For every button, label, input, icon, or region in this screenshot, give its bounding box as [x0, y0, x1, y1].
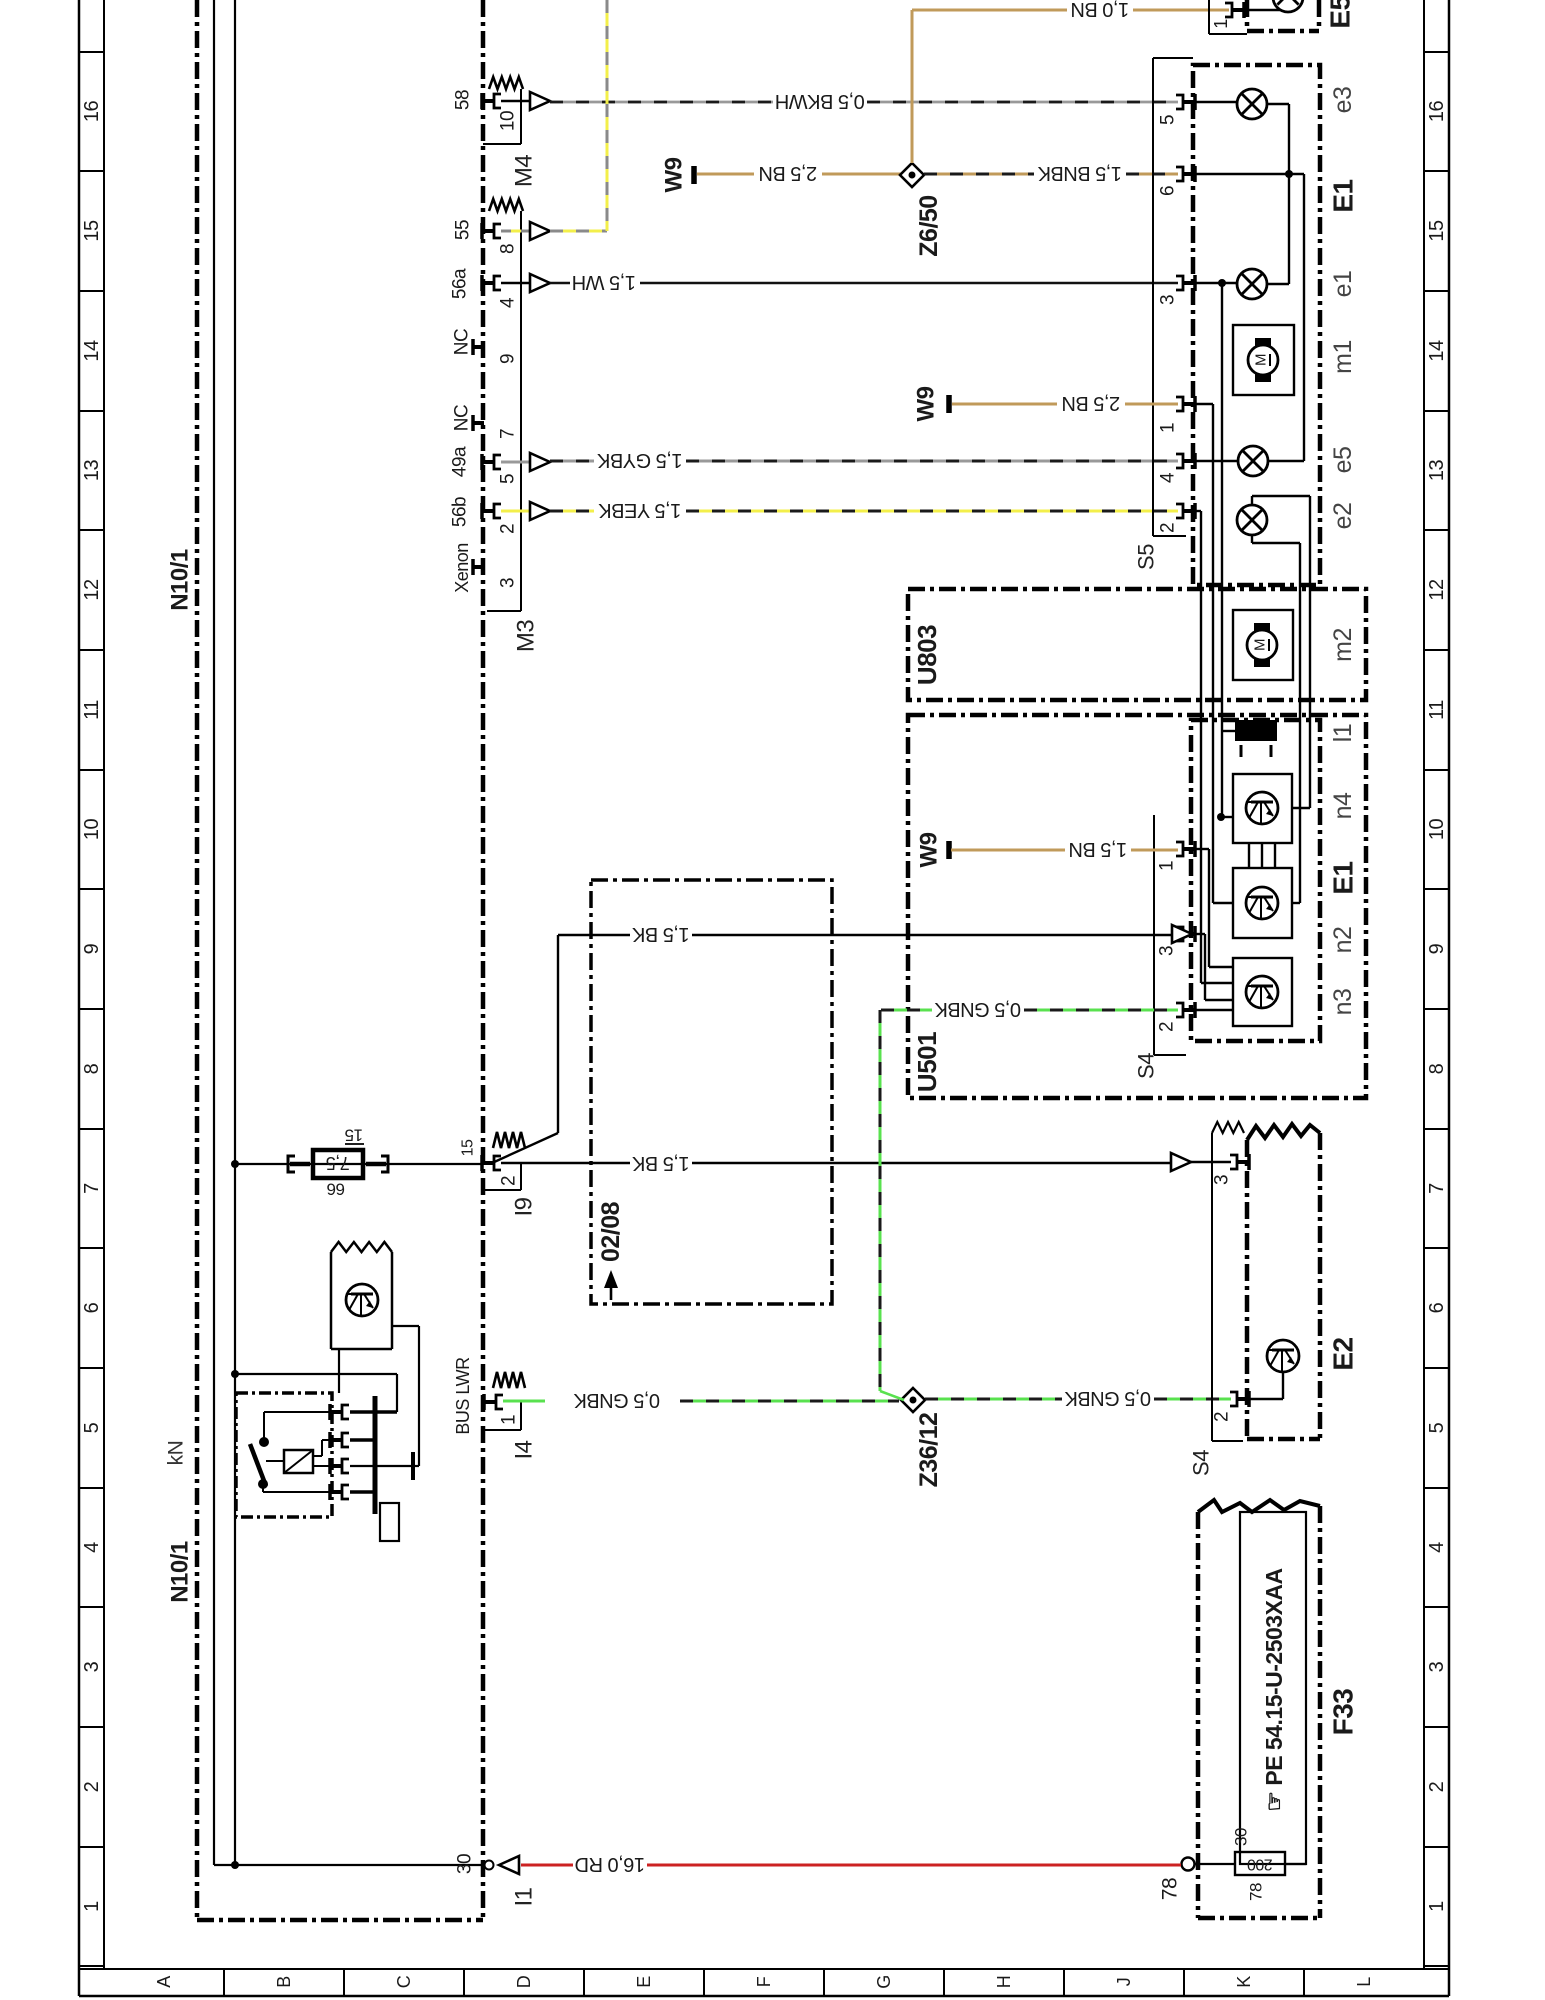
connector sleeve Z36/12	[901, 1388, 925, 1412]
svg-text:K: K	[1234, 1976, 1254, 1988]
svg-text:S5: S5	[1134, 544, 1159, 570]
fuse 7,5A	[313, 1150, 363, 1178]
relay bus bar	[373, 1396, 378, 1514]
svg-text:☞ PE 54.15-U-2503XAA: ☞ PE 54.15-U-2503XAA	[1261, 1568, 1287, 1811]
svg-text:1,5 GYBK: 1,5 GYBK	[596, 449, 682, 471]
svg-text:M: M	[1253, 354, 1270, 366]
svg-text:5: 5	[81, 1422, 103, 1433]
svg-text:W9: W9	[913, 386, 940, 421]
svg-text:15: 15	[1426, 220, 1448, 242]
motor m2	[1233, 610, 1293, 680]
igniter unit E1 lower box	[1191, 720, 1320, 1041]
pin 5	[1184, 100, 1195, 104]
svg-text:E1: E1	[1328, 179, 1359, 212]
arrow 02/08	[610, 1282, 613, 1300]
svg-text:16: 16	[1426, 101, 1448, 123]
wire pin1 down	[1194, 403, 1213, 405]
wire l1/n4 junction	[1217, 813, 1225, 821]
wire transistor to ground	[392, 1325, 419, 1327]
svg-text:1: 1	[1211, 19, 1231, 29]
svg-text:14: 14	[81, 340, 103, 362]
svg-text:F: F	[754, 1976, 774, 1987]
svg-text:78: 78	[1247, 1883, 1266, 1901]
wire 2,5 BN to Z6/50	[697, 173, 754, 176]
terminal NC pin 9	[473, 345, 484, 349]
pin 6	[1184, 172, 1195, 176]
svg-text:M4: M4	[511, 155, 538, 187]
svg-text:E2: E2	[1328, 1337, 1359, 1370]
pin 3 E2	[1238, 1160, 1249, 1164]
svg-text:C: C	[394, 1975, 414, 1988]
svg-text:n4: n4	[1329, 792, 1357, 819]
wires in E2	[1243, 1398, 1283, 1400]
svg-text:3: 3	[498, 578, 519, 588]
relay pin 3	[330, 1464, 341, 1468]
pin 1 E5	[1233, 8, 1244, 12]
wires S4 pins to igniter	[1194, 848, 1209, 850]
svg-text:S4: S4	[1134, 1053, 1159, 1079]
connector sleeve Z6/50	[900, 163, 924, 187]
fuse 200 box	[1235, 1852, 1285, 1875]
svg-text:2: 2	[1158, 523, 1179, 533]
terminal circle 30	[485, 1861, 494, 1870]
svg-text:N10/1: N10/1	[167, 549, 194, 611]
svg-text:16,0 RD: 16,0 RD	[575, 1853, 645, 1875]
relay kN box	[236, 1393, 332, 1517]
svg-text:2: 2	[81, 1781, 103, 1792]
svg-text:1,5 BNBK: 1,5 BNBK	[1037, 162, 1122, 184]
svg-text:78: 78	[1159, 1878, 1182, 1900]
svg-text:1,5 BN: 1,5 BN	[1069, 838, 1127, 860]
svg-text:3: 3	[1157, 946, 1178, 956]
svg-text:4: 4	[498, 297, 519, 308]
connector M3 bracket	[520, 211, 522, 611]
wire 1,5 BNBK to pin6	[924, 173, 1034, 176]
torn edge E2	[1247, 1124, 1320, 1140]
terminal 56a pin	[482, 281, 493, 285]
connector bracket S4 E2	[1212, 1122, 1244, 1133]
wire in E5	[1241, 9, 1288, 11]
svg-text:9: 9	[81, 943, 103, 954]
pin 15 I9	[482, 1161, 493, 1165]
prefuse F33 box	[1196, 1512, 1201, 1918]
svg-text:N10/1: N10/1	[167, 1541, 194, 1603]
svg-text:11: 11	[81, 700, 103, 720]
level sensor E2 box	[1245, 1140, 1250, 1439]
connector bracket S5	[1153, 57, 1193, 59]
svg-text:F33: F33	[1328, 1689, 1359, 1736]
svg-text:kN: kN	[165, 1441, 188, 1466]
svg-text:02/08: 02/08	[597, 1201, 625, 1262]
wire to fuse	[235, 1163, 482, 1165]
relay contact	[259, 1437, 269, 1447]
svg-text:0,5 GNBK: 0,5 GNBK	[1064, 1387, 1151, 1409]
xenon unit U501 box	[908, 715, 1366, 1098]
transistor n3	[1233, 958, 1292, 1026]
wire GNBK up from Z36/12	[880, 1391, 904, 1400]
wires e2	[1251, 496, 1253, 505]
svg-text:l1: l1	[1329, 724, 1357, 742]
fuse strip box	[1240, 1512, 1306, 1864]
wire 1,0 BN up and right	[911, 10, 914, 163]
svg-text:E5: E5	[1325, 0, 1356, 29]
svg-text:e2: e2	[1329, 503, 1357, 530]
svg-text:1,5 BK: 1,5 BK	[631, 923, 689, 945]
heated window E5 box	[1245, 0, 1250, 31]
svg-text:9: 9	[498, 354, 519, 364]
svg-text:L: L	[1354, 1977, 1374, 1987]
svg-text:J: J	[1114, 1978, 1134, 1987]
wire branch from bus B	[231, 1370, 239, 1378]
wire 1,5 BK lower	[501, 1162, 630, 1164]
svg-text:3: 3	[81, 1661, 103, 1672]
lamp in E5 (cropped)	[1273, 0, 1303, 12]
svg-text:1: 1	[1157, 861, 1178, 871]
svg-text:U501: U501	[912, 1032, 942, 1092]
svg-text:2,5 BN: 2,5 BN	[1062, 392, 1120, 414]
svg-text:8: 8	[1426, 1063, 1448, 1074]
wire 49a GYBK	[501, 461, 530, 464]
connector I4 bracket	[520, 1402, 522, 1430]
svg-text:5: 5	[498, 474, 519, 484]
svg-text:Z36/12: Z36/12	[915, 1413, 943, 1488]
svg-text:1,5 WH: 1,5 WH	[572, 271, 636, 293]
svg-text:16: 16	[81, 101, 103, 123]
svg-text:8: 8	[81, 1063, 103, 1074]
transistor in N10/1	[346, 1284, 378, 1316]
wire to ground bar	[350, 1465, 410, 1467]
headlamp unit E1 box	[1193, 65, 1320, 585]
svg-text:B: B	[274, 1976, 294, 1988]
relay pin 2	[330, 1438, 341, 1442]
torn edge F33	[1198, 1500, 1320, 1512]
svg-text:3: 3	[1212, 1175, 1233, 1185]
wire bus B inside N10/1	[234, 0, 236, 1865]
connector M4 zigzag	[489, 77, 523, 89]
wire 55 yellow	[501, 230, 530, 233]
connector I4 zigzag	[493, 1372, 525, 1388]
lamp e2	[1237, 505, 1267, 535]
svg-text:1: 1	[1426, 1901, 1448, 1912]
svg-text:2,5 BN: 2,5 BN	[759, 162, 817, 184]
wire 16,0 RD	[521, 1864, 573, 1867]
terminal Xenon pin	[473, 565, 484, 569]
svg-text:0,5 GNBK: 0,5 GNBK	[573, 1389, 660, 1411]
svg-text:S4: S4	[1189, 1450, 1214, 1476]
wire 56b YEBK	[501, 510, 530, 513]
terminal 49a pin	[482, 460, 493, 464]
svg-text:BUS LWR: BUS LWR	[453, 1357, 473, 1435]
wire transistor down	[338, 1349, 340, 1393]
wire pin6 net	[1194, 173, 1304, 175]
svg-text:n2: n2	[1329, 927, 1357, 954]
wire e5 right	[1268, 460, 1304, 462]
svg-text:2: 2	[1212, 1412, 1233, 1422]
wire 0,5 GNBK to S4 pin2	[881, 1009, 932, 1012]
wire 56a WH	[501, 282, 530, 285]
grid row letters	[223, 1969, 225, 1996]
terminal circle	[1182, 1858, 1195, 1871]
svg-text:D: D	[514, 1975, 534, 1988]
connector I9 bracket	[520, 1163, 522, 1190]
relay internal wires	[263, 1412, 265, 1442]
svg-text:1: 1	[1158, 423, 1179, 433]
transistor n2	[1233, 868, 1292, 938]
pin 1	[1184, 402, 1195, 406]
svg-text:2: 2	[498, 524, 519, 534]
svg-text:6: 6	[1158, 186, 1179, 196]
svg-text:12: 12	[1426, 579, 1448, 601]
wire 1,5 BN	[951, 849, 1065, 852]
svg-text:8: 8	[498, 244, 519, 254]
pin 2 S4	[1184, 1008, 1195, 1012]
svg-text:7: 7	[81, 1183, 103, 1194]
svg-text:49a: 49a	[450, 446, 471, 477]
svg-text:5: 5	[1158, 115, 1179, 125]
arrow at I1	[499, 1856, 519, 1874]
svg-text:e1: e1	[1329, 271, 1357, 298]
svg-text:0,5 BKWH: 0,5 BKWH	[775, 90, 864, 112]
svg-text:G: G	[874, 1975, 894, 1989]
wire e1 right	[1267, 283, 1289, 285]
connector M3 zigzag	[489, 199, 523, 211]
svg-text:6: 6	[1426, 1302, 1448, 1313]
svg-text:30: 30	[1232, 1828, 1251, 1846]
terminal 58 pin	[482, 99, 493, 103]
svg-text:E1: E1	[1328, 861, 1359, 894]
wire 1,5 BK upper	[492, 1133, 558, 1163]
pin 1 S4	[1184, 847, 1195, 851]
svg-text:0,5 GNBK: 0,5 GNBK	[934, 998, 1021, 1020]
svg-text:Xenon: Xenon	[452, 543, 472, 593]
control unit N10/1 box	[195, 0, 200, 1920]
svg-text:10: 10	[498, 111, 519, 131]
svg-text:7: 7	[1426, 1183, 1448, 1194]
transistor box in N10/1	[330, 1252, 333, 1349]
svg-text:H: H	[994, 1976, 1014, 1989]
svg-text:W9: W9	[916, 832, 943, 867]
svg-text:W9: W9	[661, 157, 688, 192]
svg-text:13: 13	[81, 460, 103, 482]
connector bracket S4 xenon	[1153, 815, 1155, 1055]
terminal 56b pin	[482, 509, 493, 513]
svg-text:2: 2	[1426, 1781, 1448, 1792]
transistor n4	[1233, 774, 1292, 843]
svg-text:7: 7	[498, 429, 519, 439]
svg-text:5: 5	[1426, 1422, 1448, 1433]
svg-text:n3: n3	[1329, 989, 1357, 1016]
wire 2,5 BN to pin 1	[952, 403, 1057, 406]
svg-text:15: 15	[460, 1139, 477, 1156]
pin 2 E2	[1238, 1397, 1249, 1401]
border frame	[78, 0, 81, 1996]
svg-text:U803: U803	[912, 625, 942, 685]
svg-text:1: 1	[499, 1415, 520, 1425]
svg-text:14: 14	[1426, 340, 1448, 362]
wires n right side	[1292, 807, 1310, 809]
wire pin2 down	[1194, 510, 1201, 512]
svg-text:e5: e5	[1329, 447, 1357, 474]
pin 3	[1184, 281, 1195, 285]
svg-text:200: 200	[1247, 1856, 1273, 1873]
svg-text:A: A	[154, 1976, 174, 1988]
reference frame 02/08	[591, 880, 832, 1304]
terminal 55 pin	[482, 229, 493, 233]
pin 2	[1184, 509, 1195, 513]
svg-text:13: 13	[1426, 460, 1448, 482]
svg-text:15: 15	[345, 1126, 363, 1145]
svg-text:15: 15	[81, 220, 103, 242]
svg-text:Z6/50: Z6/50	[915, 195, 943, 256]
lamp e5	[1194, 460, 1238, 462]
junction	[231, 1861, 239, 1869]
washer unit U803 box	[908, 589, 1366, 700]
connector I9 zigzag	[493, 1132, 525, 1148]
svg-text:1: 1	[81, 1901, 103, 1912]
relay pin 4	[330, 1490, 341, 1494]
wire bus A inside N10/1	[213, 0, 215, 1865]
wire GNBK right from Z36/12	[925, 1398, 1062, 1401]
svg-text:56a: 56a	[450, 268, 471, 299]
svg-text:12: 12	[81, 579, 103, 601]
svg-text:4: 4	[1158, 472, 1179, 483]
svg-text:10: 10	[1426, 819, 1448, 841]
svg-text:m1: m1	[1329, 340, 1357, 374]
svg-text:3: 3	[1426, 1661, 1448, 1672]
connector M4 bracket	[520, 89, 522, 144]
terminal bar kN	[411, 1452, 415, 1480]
pin 4	[1184, 459, 1195, 463]
svg-text:M3: M3	[513, 620, 540, 652]
terminal NC pin 7	[473, 421, 484, 425]
svg-text:4: 4	[1426, 1542, 1448, 1553]
fuse pin right	[381, 1156, 388, 1172]
svg-text:3: 3	[1158, 295, 1179, 305]
svg-text:I1: I1	[511, 1887, 538, 1906]
svg-text:I4: I4	[511, 1440, 538, 1459]
svg-text:11: 11	[1426, 700, 1448, 720]
lamp e3	[1194, 101, 1237, 103]
svg-text:10: 10	[81, 819, 103, 841]
wire through 200 fuse	[1194, 1863, 1235, 1865]
svg-text:4: 4	[81, 1542, 103, 1553]
lamp e1	[1237, 269, 1267, 299]
svg-text:M: M	[1252, 639, 1269, 651]
wire 0,5 GNBK from I4	[503, 1400, 545, 1403]
suppressor l1	[1235, 720, 1277, 741]
svg-text:1,0 BN: 1,0 BN	[1071, 0, 1129, 20]
svg-text:I9: I9	[511, 1197, 538, 1216]
svg-text:2: 2	[499, 1176, 520, 1186]
svg-text:m2: m2	[1329, 628, 1357, 662]
relay pin 1	[330, 1410, 341, 1414]
svg-text:E: E	[634, 1976, 654, 1988]
motor m1	[1233, 325, 1294, 395]
junction fuse branch	[231, 1160, 239, 1168]
svg-text:NC: NC	[452, 329, 473, 355]
svg-text:58: 58	[453, 90, 474, 110]
small loop below relay	[380, 1503, 399, 1541]
svg-text:6: 6	[81, 1302, 103, 1313]
svg-text:66: 66	[327, 1180, 345, 1199]
svg-text:9: 9	[1426, 943, 1448, 954]
svg-text:2: 2	[1157, 1022, 1178, 1032]
links n4-n2	[1248, 843, 1250, 868]
wire to terminal 30	[214, 1864, 482, 1866]
wire 58 BKWH	[501, 100, 530, 103]
svg-text:30: 30	[455, 1854, 476, 1874]
pin 1 I4	[484, 1400, 495, 1404]
svg-text:NC: NC	[452, 405, 473, 431]
wire e1 junction down	[1221, 283, 1223, 817]
svg-text:7,5: 7,5	[326, 1153, 350, 1173]
svg-text:55: 55	[453, 220, 474, 240]
connector bracket E5	[1208, 0, 1210, 34]
wire e3 right	[1267, 103, 1289, 105]
svg-text:e3: e3	[1329, 87, 1357, 114]
svg-text:1,5 YEBK: 1,5 YEBK	[598, 499, 682, 521]
pin 3 S4	[1184, 932, 1195, 936]
transistor symbol in E2	[1267, 1340, 1299, 1372]
fuse pin left	[288, 1156, 295, 1172]
svg-text:1,5 BK: 1,5 BK	[631, 1152, 689, 1174]
svg-text:56b: 56b	[450, 497, 471, 527]
wire 55 vertical to top	[606, 0, 609, 231]
relay coil	[284, 1450, 313, 1473]
